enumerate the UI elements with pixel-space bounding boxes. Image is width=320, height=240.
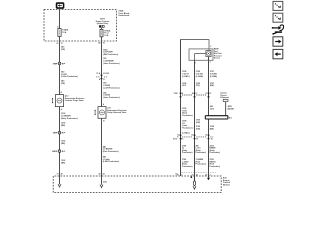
svg-text:Production): Production) — [182, 151, 193, 154]
in-line connector X126 on wire 1 — [53, 62, 65, 65]
toolbar icon: next arrow — [273, 37, 283, 46]
svg-text:(Early Production): (Early Production) — [61, 117, 78, 120]
svg-text:(L-GN Production): (L-GN Production) — [103, 86, 120, 89]
svg-text:33: 33 — [192, 174, 194, 176]
svg-text:(GN): (GN) — [196, 122, 200, 124]
svg-text:40: 40 — [99, 173, 101, 176]
svg-text:(GY): (GY) — [182, 85, 186, 87]
svg-text:(WH Production): (WH Production) — [103, 53, 118, 56]
noise suppressor bar — [205, 116, 232, 120]
svg-text:24 A1: 24 A1 — [52, 150, 57, 153]
svg-text:S103: S103 — [53, 133, 57, 135]
EVAP purge solenoid valve (second) — [94, 107, 106, 119]
wire label 939 block 2 — [103, 83, 120, 90]
wire label 940 (PK) — [61, 45, 65, 50]
wire C lower label blocks — [210, 144, 221, 167]
wire: sensor signal (middle) — [194, 60, 196, 176]
svg-text:X175: X175 — [173, 139, 177, 141]
svg-text:Module: Module — [223, 185, 231, 187]
wire C label block 2 — [210, 83, 214, 87]
svg-text:7: 7 — [181, 174, 182, 176]
svg-text:24: 24 — [103, 173, 105, 176]
wire B label block 1 — [196, 71, 204, 78]
svg-text:F: F — [210, 93, 211, 95]
wire label 4352 block — [103, 48, 118, 56]
wire A label block 4 — [182, 121, 193, 130]
toolbar icon: previous arrow — [273, 49, 283, 58]
wire C arrow inside ECM — [207, 176, 210, 180]
svg-text:(PK): (PK) — [61, 83, 65, 85]
relay KR73 contact symbol — [99, 25, 104, 27]
wire label 1203 second block — [61, 123, 65, 127]
wire A label block 1 — [182, 71, 190, 78]
wire label 445 block 2 — [103, 156, 120, 164]
svg-text:19: 19 — [205, 135, 207, 137]
svg-text:(BK): (BK) — [61, 162, 65, 164]
svg-text:Sensor: Sensor — [214, 57, 221, 60]
fuel injector cluster connector and capacitor branch — [220, 92, 234, 116]
svg-text:14: 14 — [177, 134, 179, 137]
ECM K20 dashed module box — [53, 176, 221, 192]
svg-text:(Later Production): (Later Production) — [103, 62, 120, 65]
svg-text:(BN): (BN) — [210, 128, 214, 130]
wire label 940 second block — [61, 80, 65, 85]
splice S103 on wire 1 — [53, 131, 65, 134]
svg-text:(BN): (BN) — [210, 85, 214, 87]
svg-text:57: 57 — [177, 174, 179, 176]
label Q13 Evaporative Emission Canister Purge Solenoid Valve — [65, 96, 85, 103]
svg-text:75: 75 — [61, 43, 63, 45]
svg-text:16: 16 — [196, 139, 198, 141]
fuse F34UA 15A — [58, 29, 69, 37]
wire B internal loop and arrow inside ECM — [191, 176, 196, 189]
wire 2 termination arrow inside ECM — [100, 176, 107, 188]
svg-text:73: 73 — [57, 174, 59, 176]
svg-text:(L-Blu Production): (L-Blu Production) — [61, 75, 78, 78]
EVAP canister purge solenoid valve Q13 — [52, 95, 64, 107]
svg-text:(GN): (GN) — [196, 128, 200, 130]
svg-text:A11: A11 — [229, 116, 232, 119]
wire C label block 1 — [210, 71, 218, 78]
svg-text:18: 18 — [196, 174, 198, 176]
fuse block X50A dashed box — [44, 10, 117, 42]
svg-text:(BK): (BK) — [61, 125, 65, 127]
toolbar icon: detail view 2 (box with diagonal dotted arrow) — [273, 13, 283, 22]
wire label 939 block — [103, 58, 120, 65]
splice S104 on wire 1 — [52, 150, 65, 153]
toolbar icon: detail view 1 (box with diagonal dotted arrow) — [273, 1, 283, 10]
label Fuel Rail Fuel Pressure Sensor — [214, 48, 222, 60]
wire label 445 block — [103, 145, 119, 153]
svg-text:10 A: 10 A — [104, 34, 109, 37]
wire C label right of low ref — [210, 105, 214, 110]
label Evaporative Emission Purge Solenoid Valve — [107, 108, 127, 115]
svg-text:(PK): (PK) — [61, 49, 65, 51]
wire B label mid blocks — [196, 120, 200, 131]
svg-text:20: 20 — [211, 139, 213, 141]
wire A label block 2 — [182, 83, 186, 87]
svg-text:(L-RAIL): (L-RAIL) — [196, 75, 204, 78]
svg-text:X126: X126 — [53, 63, 57, 65]
svg-text:Production): Production) — [196, 163, 207, 166]
wire C label mid block — [210, 125, 215, 130]
label X50A Fuse Block - Underhood — [119, 10, 131, 18]
svg-text:N-Spigots: N-Spigots — [220, 96, 229, 99]
svg-text:Production): Production) — [210, 151, 221, 154]
in-line connector on wire 2 — [96, 72, 109, 81]
wire B lower label blocks — [196, 144, 207, 165]
wire label below S104 — [61, 160, 65, 164]
svg-text:(L-RAIL): (L-RAIL) — [182, 75, 190, 78]
wire label below S103 — [61, 141, 65, 145]
svg-text:(BU/W): (BU/W) — [228, 108, 235, 110]
svg-text:15: 15 — [191, 135, 193, 137]
wire B label block 2 — [196, 83, 200, 87]
svg-text:(Later Production): (Later Production) — [103, 96, 120, 99]
svg-text:Production): Production) — [182, 126, 193, 129]
svg-text:3: 3 — [210, 46, 211, 48]
fuel rail fuel pressure sensor B47B box — [189, 49, 213, 60]
toolbar icon: circuit trace glyph — [272, 25, 284, 35]
pin labels at ECM entries, sensor wires — [177, 173, 210, 176]
svg-text:X1: X1 — [103, 42, 105, 44]
svg-text:X105: X105 — [174, 93, 178, 95]
svg-text:Canister Purge Valve: Canister Purge Valve — [65, 99, 84, 102]
svg-text:X1: X1 — [56, 43, 58, 45]
svg-text:(L-RAIL): (L-RAIL) — [210, 75, 218, 78]
svg-text:16: 16 — [181, 139, 183, 141]
wire: 5V reference with routed top run — [180, 40, 209, 177]
svg-text:Production): Production) — [196, 151, 207, 154]
fuse F29UA 10A — [100, 29, 111, 37]
wire: left circuit vertical feed — [59, 8, 61, 176]
svg-text:(GY): (GY) — [210, 108, 214, 110]
svg-text:Production): Production) — [210, 165, 221, 168]
svg-text:46: 46 — [61, 173, 63, 176]
svg-text:Ignition Relay: Ignition Relay — [97, 22, 109, 25]
svg-text:A6: A6 — [98, 41, 100, 44]
wire 1 termination arrow inside ECM — [58, 176, 61, 187]
wire: sensor low reference (right) — [208, 57, 210, 176]
svg-text:B J100: B J100 — [103, 73, 109, 75]
wire A lower label blocks — [182, 145, 193, 167]
label K20 Engine Control Module — [223, 178, 231, 187]
svg-text:Production): Production) — [182, 165, 193, 168]
svg-text:Purge Solenoid Valve: Purge Solenoid Valve — [107, 112, 126, 114]
in-line connector row X175 (dashed) — [173, 134, 213, 141]
svg-text:Production): Production) — [182, 114, 193, 117]
wire A label block 3 — [182, 108, 193, 117]
wire label 1203 block — [61, 113, 78, 120]
wire: relay output circuit — [101, 28, 103, 176]
svg-text:15 A: 15 A — [62, 31, 67, 34]
svg-text:2: 2 — [210, 62, 211, 64]
svg-text:1: 1 — [195, 63, 196, 65]
relay KR73 Engine Controls Ignition Relay label — [96, 19, 110, 26]
off-page battery feed arrow connector — [56, 3, 64, 9]
svg-text:(Park Production): (Park Production) — [103, 150, 119, 153]
ECM X2 connector dotted sub-line — [175, 173, 216, 176]
svg-text:(BK): (BK) — [61, 143, 65, 145]
wire label 939 block 3 — [103, 92, 120, 99]
wire label 940 0.5 PK block — [61, 71, 78, 79]
svg-text:Underhood: Underhood — [119, 15, 130, 17]
svg-text:(TN): (TN) — [196, 85, 200, 87]
svg-text:(L-RAIL): (L-RAIL) — [182, 131, 190, 134]
svg-text:(L-BK Production): (L-BK Production) — [103, 160, 120, 163]
svg-text:2: 2 — [210, 174, 211, 176]
in-line connector row X105 (dashed) — [174, 92, 211, 97]
svg-text:47: 47 — [205, 173, 207, 176]
